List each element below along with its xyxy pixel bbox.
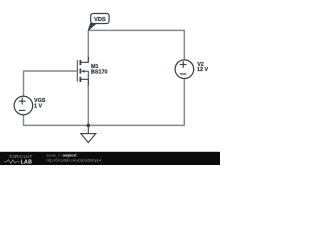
svg-text:http://circuitlab.com/c/jkcs6b: http://circuitlab.com/c/jkcs6bfmpp4: [47, 158, 102, 162]
svg-text:1 V: 1 V: [34, 104, 42, 110]
svg-text:BS170: BS170: [91, 70, 107, 76]
svg-text:LAB: LAB: [21, 159, 33, 165]
svg-text:VDS: VDS: [94, 17, 106, 23]
svg-text:12 V: 12 V: [197, 67, 208, 73]
svg-text:susan_z / amplest: susan_z / amplest: [47, 153, 78, 157]
